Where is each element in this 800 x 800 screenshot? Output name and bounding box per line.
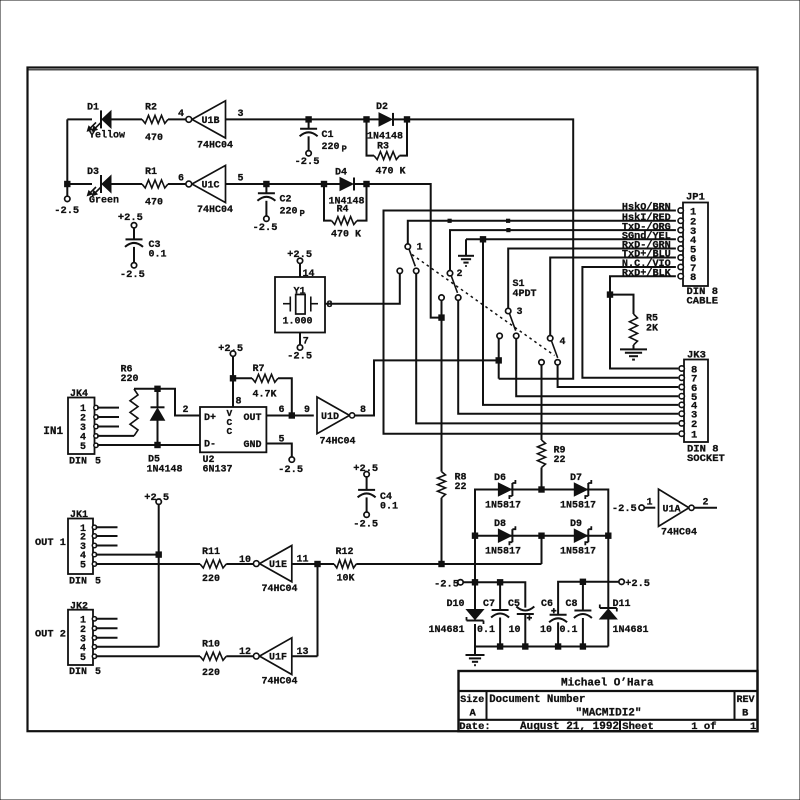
junction rail C7	[497, 580, 502, 585]
svg-text:4: 4	[178, 109, 184, 120]
S1 sec3 blade	[509, 313, 515, 330]
svg-text:Michael O’Hara: Michael O’Hara	[561, 677, 654, 689]
junction row2 right	[606, 533, 611, 538]
svg-text:6: 6	[178, 174, 184, 185]
svg-text:DIN: DIN	[69, 667, 87, 678]
switch S1 sec4 common	[548, 336, 566, 349]
svg-text:C6: C6	[541, 599, 553, 610]
svg-text:1: 1	[647, 498, 653, 509]
svg-text:7: 7	[303, 337, 309, 348]
svg-text:22: 22	[455, 482, 467, 493]
capacitor C1 220p	[295, 119, 348, 167]
svg-text:8: 8	[327, 300, 333, 311]
junction net5 to R8 line	[439, 315, 444, 320]
wire JK2 pin4 from +2.5 drop	[96, 646, 159, 648]
switch S1 sec1 common	[405, 243, 422, 254]
oscillator Y1 1.000 block	[275, 249, 325, 363]
svg-text:-2.5: -2.5	[295, 156, 320, 168]
svg-text:U1D: U1D	[321, 412, 339, 423]
svg-text:10K: 10K	[337, 574, 355, 585]
svg-text:C: C	[227, 426, 233, 437]
svg-text:2: 2	[703, 498, 709, 509]
svg-text:1.000: 1.000	[283, 316, 313, 327]
svg-text:470: 470	[145, 197, 163, 208]
svg-text:U1F: U1F	[269, 653, 287, 664]
wire sec3 right to JK3 pin 5	[516, 339, 678, 397]
wire JK1 pin5 to R11	[96, 563, 200, 565]
terminal +2.5 JK1	[144, 492, 169, 647]
svg-text:470 K: 470 K	[331, 230, 361, 241]
inverter U1F 74HC04	[253, 638, 297, 688]
wire to JK3 pin8	[610, 295, 678, 369]
svg-text:D11: D11	[613, 599, 631, 610]
svg-text:CABLE: CABLE	[687, 296, 719, 308]
label S1 4PDT	[513, 279, 537, 300]
svg-text:D7: D7	[570, 473, 582, 484]
junction row2 left	[472, 533, 477, 538]
svg-text:2: 2	[457, 269, 463, 280]
svg-text:Size: Size	[460, 694, 484, 706]
junction rail C8	[580, 579, 585, 584]
svg-text:-2.5: -2.5	[612, 503, 637, 515]
wire diode row 1	[475, 490, 608, 536]
svg-text:1N5817: 1N5817	[485, 500, 521, 511]
junction U1E/U1F outputs	[315, 561, 320, 566]
capacitor C6 10 electrolytic	[540, 599, 567, 647]
junction D5 top	[155, 386, 160, 391]
ground symbol bottom	[466, 647, 485, 666]
inverter U1B 74HC04	[186, 101, 233, 152]
connector JK1 DIN 5	[68, 510, 101, 587]
resistor R8 22	[438, 472, 467, 498]
wire sec4 left down to R9	[541, 365, 543, 440]
S1 sec4 throw left	[539, 360, 544, 365]
S1 mechanical linkage dashed	[412, 255, 555, 356]
diode D7 1N5817	[560, 473, 596, 512]
svg-text:1N4681: 1N4681	[613, 625, 649, 636]
wire sec2 left down to R8	[441, 300, 443, 471]
capacitor C7 0.1	[477, 582, 509, 646]
ground at S1 section 2	[457, 239, 475, 280]
svg-text:14: 14	[303, 269, 315, 280]
LED D3 Green	[87, 167, 119, 206]
U2 GND pin 5 to -2.5	[266, 435, 303, 476]
optocoupler U2 6N137	[200, 407, 266, 476]
svg-text:0.1: 0.1	[149, 249, 167, 260]
svg-text:RxD+/BLK: RxD+/BLK	[622, 267, 672, 279]
svg-text:R11: R11	[202, 547, 220, 558]
wire JK4 pin4 to R6	[97, 435, 134, 437]
svg-text:Yellow: Yellow	[89, 130, 125, 142]
junction RxD+ R5 tap	[607, 292, 612, 297]
wire JK2 pin5 to R10	[96, 655, 200, 657]
wire SGnd down to JK3 pin 4	[483, 239, 678, 405]
svg-text:R3: R3	[377, 141, 389, 152]
wire D2 to junction	[392, 118, 407, 120]
title block	[459, 671, 758, 733]
svg-text:SOCKET: SOCKET	[687, 453, 725, 465]
LED D1 Yellow	[87, 103, 125, 142]
inverter U1A 74HC04 spare	[612, 489, 717, 539]
svg-text:8: 8	[690, 272, 696, 284]
svg-text:R12: R12	[336, 547, 354, 558]
svg-text:Sheet: Sheet	[622, 721, 654, 733]
junction small at HskI x450	[448, 219, 451, 222]
wire R2 to U1B pin 4	[168, 109, 186, 120]
diode D5 1N4148	[147, 389, 183, 476]
wire R9 bottom	[541, 468, 543, 490]
svg-text:74HC04: 74HC04	[661, 528, 697, 539]
svg-text:D3: D3	[87, 167, 99, 178]
wire U2 OUT pin 6 to U1D pin 9	[266, 405, 313, 416]
resistor R6 220	[121, 365, 139, 436]
net 3 wire right and down to S1 area	[407, 119, 573, 378]
svg-text:1N4148: 1N4148	[147, 465, 183, 476]
JK2 pin3 stub	[96, 637, 118, 639]
wire sec1 right to JK3 pin 2	[416, 274, 678, 424]
diode D8 1N5817	[485, 519, 521, 558]
wire sec3 common to JP1 pin 5	[508, 249, 676, 309]
resistor R11 220	[200, 547, 226, 585]
svg-text:D8: D8	[494, 519, 506, 530]
svg-text:DIN: DIN	[69, 576, 87, 587]
svg-text:5: 5	[80, 653, 86, 664]
svg-text:-2.5: -2.5	[278, 464, 303, 476]
U2 VCC pin 8 +2.5	[218, 343, 243, 408]
wire JK1 pin4 to +2.5 drop	[96, 554, 159, 556]
junction C2 tap	[264, 181, 269, 186]
svg-text:+2.5: +2.5	[625, 578, 650, 590]
zener D11 1N4681	[600, 582, 649, 647]
junction left rail	[65, 181, 70, 186]
junction U1D net to S1 sec3 throw	[496, 358, 501, 363]
JP1 wire labels	[622, 202, 672, 280]
svg-text:HskO/BRN: HskO/BRN	[622, 202, 671, 214]
svg-text:1: 1	[417, 243, 423, 254]
junction small at TxD- x508	[507, 229, 510, 232]
junction C1 tap	[306, 117, 311, 122]
svg-text:5: 5	[95, 667, 101, 678]
svg-text:D-: D-	[204, 440, 216, 451]
svg-text:470 K: 470 K	[376, 167, 406, 178]
svg-text:5: 5	[238, 174, 244, 185]
diode D2 1N4148	[367, 102, 403, 143]
diode D4 1N4148	[329, 168, 365, 208]
svg-text:P: P	[300, 209, 306, 219]
svg-text:0.1: 0.1	[477, 625, 495, 636]
inverter U1D 74HC04	[317, 397, 356, 448]
svg-text:REV: REV	[737, 695, 755, 706]
svg-text:"MACMIDI2": "MACMIDI2"	[576, 707, 642, 719]
junction D2/R3 left	[364, 117, 369, 122]
junction gnd C8	[580, 644, 585, 649]
svg-text:OUT 1: OUT 1	[35, 537, 66, 549]
svg-text:220: 220	[322, 142, 340, 153]
inverter U1C 74HC04	[186, 165, 233, 216]
wire HskO JP1 pin1 to JK3 pin1	[384, 211, 679, 434]
junction D2/R3 right	[404, 117, 409, 122]
svg-text:-2.5: -2.5	[353, 518, 378, 530]
JK4 pin1 stub	[97, 407, 119, 409]
svg-text:12: 12	[239, 647, 251, 658]
junction D4/R4 left	[321, 181, 326, 186]
wire Y1 pin 8 to S1 sec1 throw	[325, 274, 400, 311]
svg-text:1 of: 1 of	[691, 721, 716, 733]
svg-text:D10: D10	[447, 599, 465, 610]
svg-text:1N5817: 1N5817	[485, 547, 521, 558]
label OUT 2	[35, 629, 66, 641]
junction SGnd	[480, 237, 485, 242]
svg-text:0.1: 0.1	[380, 502, 398, 513]
terminal -2.5 rail	[434, 579, 463, 591]
capacitor C5 10 electrolytic	[508, 599, 534, 647]
wire left rail top corner to D1	[67, 118, 92, 120]
svg-text:U1C: U1C	[202, 181, 220, 192]
svg-text:U1A: U1A	[663, 504, 681, 515]
S1 sec2 throw right	[456, 295, 461, 300]
capacitor C3 0.1	[118, 212, 167, 281]
resistor R2	[142, 103, 168, 144]
svg-text:11: 11	[297, 554, 309, 565]
svg-text:10: 10	[540, 625, 552, 636]
connector JK2 DIN 5	[68, 601, 101, 678]
wire D4 to junction	[353, 183, 366, 185]
junction gnd C6	[555, 644, 560, 649]
svg-text:R2: R2	[145, 103, 157, 114]
svg-text:1N5817: 1N5817	[560, 547, 596, 558]
S1 sec1 blade	[409, 249, 415, 266]
wire sec3 left down	[498, 339, 500, 379]
svg-text:Document Number: Document Number	[489, 694, 585, 706]
wire U1E out pin 11	[292, 554, 334, 565]
svg-text:3: 3	[238, 109, 244, 120]
junction R7 left	[230, 376, 235, 381]
S1 sec1 throw right	[414, 268, 419, 273]
svg-text:4: 4	[560, 337, 566, 348]
svg-text:R7: R7	[253, 364, 265, 375]
connector JP1 DIN 8 CABLE	[678, 192, 718, 308]
svg-text:C7: C7	[483, 599, 495, 610]
junction rail D10	[472, 580, 477, 585]
svg-text:C2: C2	[280, 195, 292, 206]
S1 sec2 throw left	[439, 295, 444, 300]
wire SGnd JP1 pin 4	[466, 238, 676, 240]
wire D3 to R1	[111, 183, 142, 185]
wire D1 to R2	[111, 118, 142, 120]
svg-text:-2.5: -2.5	[54, 205, 79, 217]
JK4 pin2 stub	[97, 416, 119, 418]
svg-text:22: 22	[554, 455, 566, 466]
wire sec4 common to JP1 pin 6	[550, 258, 676, 336]
svg-text:13: 13	[297, 647, 309, 658]
S1 sec2 blade	[451, 276, 457, 293]
wire R8 bottom to rail	[441, 498, 443, 564]
border frame	[28, 68, 758, 732]
JK1 pin1 stub	[96, 526, 118, 528]
svg-text:3: 3	[517, 307, 523, 318]
resistor R10 220	[200, 639, 226, 679]
ground rail wire	[475, 646, 608, 648]
junction D4/R4 right	[364, 181, 369, 186]
svg-text:1N5817: 1N5817	[560, 500, 596, 511]
svg-text:5: 5	[80, 561, 86, 572]
wire U1C out pin 5	[226, 174, 264, 185]
resistor R3 470K parallel loop	[367, 119, 408, 177]
wire row2 mid down to R12 rail	[541, 536, 543, 564]
S1 sec1 throw left	[397, 268, 402, 273]
wire junction to D3	[67, 183, 92, 185]
svg-text:B: B	[742, 707, 749, 719]
S1 sec4 blade	[551, 341, 557, 358]
terminal +2.5 rail	[608, 578, 650, 590]
resistor R4 470K parallel loop	[324, 184, 367, 241]
wire sec1 common to JP1 pin 2	[408, 221, 676, 244]
capacitor C8 0.1	[560, 582, 592, 647]
resistor R1	[142, 167, 168, 208]
terminal -2.5 left rail	[54, 184, 79, 217]
wire U1B out pin 3	[226, 109, 306, 120]
svg-text:-2.5: -2.5	[253, 222, 278, 234]
wire R11 to U1E pin 10	[226, 555, 253, 566]
svg-text:10: 10	[239, 555, 251, 566]
svg-text:5: 5	[95, 457, 101, 468]
svg-text:5: 5	[80, 442, 86, 453]
svg-text:220: 220	[202, 668, 220, 679]
wire sec2 common to JP1 pin 3	[450, 230, 676, 270]
capacitor C2 220p	[253, 184, 306, 234]
JK2 pin1 stub	[96, 618, 118, 620]
S1 sec4 throw right	[555, 360, 560, 365]
resistor R7 4.7K	[233, 364, 292, 416]
svg-text:U1E: U1E	[269, 560, 287, 571]
wire NC JP1 pin7 to JK3 pin7	[582, 267, 678, 378]
svg-text:C8: C8	[566, 599, 578, 610]
junction R7 right	[289, 413, 294, 418]
svg-text:4.7K: 4.7K	[253, 390, 277, 401]
junction gnd C5	[523, 644, 528, 649]
junction gnd C7	[497, 644, 502, 649]
wire R1 to U1C pin 6	[168, 174, 186, 185]
svg-text:220: 220	[280, 206, 298, 217]
svg-text:5: 5	[95, 576, 101, 587]
svg-text:1N4681: 1N4681	[429, 625, 465, 636]
S1 sec3 throw left	[497, 333, 502, 338]
svg-text:74HC04: 74HC04	[262, 584, 298, 595]
net 5 wire right and down	[367, 184, 442, 318]
svg-text:C5: C5	[508, 599, 520, 610]
wire U1F out pin 13 up to U1E out	[292, 564, 318, 658]
svg-text:D2: D2	[376, 102, 388, 113]
svg-text:8: 8	[236, 397, 242, 408]
junction R8 bottom	[439, 561, 444, 566]
wire JK4 pin5 to U2 D-	[97, 444, 200, 446]
switch S1 sec3 common	[506, 307, 523, 318]
svg-text:1: 1	[691, 430, 697, 442]
svg-text:August 21, 1992: August 21, 1992	[520, 721, 619, 733]
svg-text:4PDT: 4PDT	[513, 289, 537, 300]
zener D10 1N4681	[429, 582, 484, 646]
wire R12 to diode bridge	[356, 563, 541, 565]
svg-text:D6: D6	[494, 473, 506, 484]
wire to D4	[266, 183, 340, 185]
svg-text:6: 6	[279, 405, 285, 416]
svg-text:JK2: JK2	[70, 601, 88, 612]
junction R9 row1	[539, 487, 544, 492]
connector JK3 DIN 8 SOCKET	[679, 350, 725, 466]
junction D5 bottom	[155, 442, 160, 447]
svg-text:220: 220	[121, 374, 139, 385]
svg-text:D1: D1	[87, 103, 99, 114]
S1 sec3 throw right	[514, 333, 519, 338]
svg-text:GND: GND	[244, 440, 262, 451]
positive rail wire	[558, 582, 608, 615]
resistor R5 2K	[610, 295, 658, 349]
svg-text:D4: D4	[335, 168, 347, 179]
JK2 pin2 stub	[96, 627, 118, 629]
svg-text:C1: C1	[322, 130, 334, 141]
connector JK4 DIN 5	[43, 389, 101, 468]
svg-text:1: 1	[750, 721, 756, 733]
svg-text:Green: Green	[89, 195, 119, 206]
diode D9 1N5817	[560, 519, 596, 558]
junction +2.5 at JK1 pin4	[156, 552, 161, 557]
wire RxD+ JP1 pin8 down	[610, 276, 676, 294]
svg-text:-2.5: -2.5	[287, 350, 312, 362]
wire U1D out pin 8 up	[355, 360, 496, 415]
svg-text:2K: 2K	[646, 323, 658, 334]
svg-text:R4: R4	[337, 205, 349, 216]
junction row2 mid	[539, 533, 544, 538]
svg-text:0.1: 0.1	[560, 625, 578, 636]
label OUT 1	[35, 537, 66, 549]
svg-text:6N137: 6N137	[203, 465, 233, 476]
ground below R5	[620, 349, 647, 359]
svg-text:DIN: DIN	[69, 457, 87, 468]
svg-text:2: 2	[182, 405, 188, 416]
svg-text:10: 10	[509, 625, 521, 636]
inverter U1E 74HC04	[253, 546, 297, 596]
svg-text:Date:: Date:	[459, 721, 491, 733]
wire diode row 2	[475, 536, 608, 583]
junction small at HskI x508	[507, 219, 510, 222]
svg-text:74HC04: 74HC04	[320, 437, 356, 448]
svg-text:U1B: U1B	[202, 116, 220, 127]
wire R6 top to U2 D+ pin 2	[134, 389, 200, 416]
svg-text:+2.5: +2.5	[118, 212, 143, 224]
diode D6 1N5817	[485, 473, 521, 512]
JK1 pin2 stub	[96, 535, 118, 537]
svg-text:A: A	[470, 707, 477, 719]
negative rail wire	[463, 582, 525, 607]
svg-text:220: 220	[202, 574, 220, 585]
svg-text:D9: D9	[570, 519, 582, 530]
switch S1 sec2 common	[447, 271, 452, 276]
wire to D2 anode	[309, 118, 379, 120]
resistor R12 10K	[334, 547, 356, 585]
svg-text:470: 470	[145, 133, 163, 144]
svg-text:9: 9	[304, 405, 310, 416]
JK4 pin3 stub	[97, 426, 119, 428]
svg-text:R1: R1	[145, 167, 157, 178]
svg-text:R10: R10	[202, 639, 220, 650]
wire sec2 right to JK3 pin 3	[458, 300, 678, 413]
svg-text:74HC04: 74HC04	[197, 141, 233, 152]
svg-text:OUT: OUT	[244, 413, 262, 424]
wire sec4 right to JK3 pin 6	[558, 365, 679, 387]
svg-text:8: 8	[360, 405, 366, 416]
JK1 pin3 stub	[96, 545, 118, 547]
svg-text:D+: D+	[204, 413, 216, 424]
